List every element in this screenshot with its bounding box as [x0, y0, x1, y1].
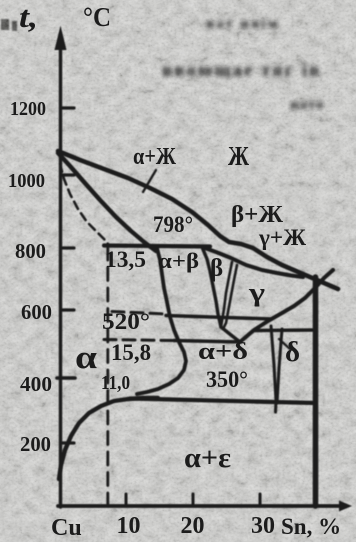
beta left boundary [202, 247, 221, 327]
svg-text:Cu: Cu [51, 515, 82, 541]
y-axis [59, 44, 62, 507]
delta top line [254, 328, 316, 332]
y tick 800 [61, 246, 74, 249]
svg-text:13,5: 13,5 [105, 247, 146, 272]
right border of diagram [313, 277, 319, 506]
svg-text:10: 10 [117, 513, 141, 539]
svg-text:β: β [210, 255, 223, 282]
partial glyphs at top-left page edge [1, 19, 9, 30]
svg-text:1000: 1000 [8, 170, 45, 192]
x tick 10 [125, 494, 128, 506]
y tick 1000 [61, 173, 74, 176]
delta needle left [271, 326, 276, 412]
alpha solvus bulb [137, 248, 186, 394]
svg-text:11,0: 11,0 [101, 372, 130, 394]
bleed-through text rows [162, 16, 324, 113]
y tick 1200 [61, 106, 74, 109]
eutectoid 586 dashed part [112, 312, 166, 315]
delta label leader [279, 339, 290, 349]
svg-text:798°: 798° [153, 212, 193, 237]
svg-text:Sn, %: Sn, % [281, 514, 341, 539]
eutectoid 520 solid part [174, 341, 241, 343]
gamma top boundary [202, 247, 303, 277]
svg-text:α+ε: α+ε [184, 443, 231, 474]
svg-text:α+Ж: α+Ж [133, 144, 176, 170]
y tick 200 [61, 441, 74, 444]
y tick 600 [61, 308, 74, 311]
svg-text:нато: нато [290, 97, 324, 113]
x-axis arrowhead [339, 501, 352, 512]
gamma bottom boundary [240, 270, 333, 342]
svg-text:20: 20 [181, 513, 205, 539]
delta needle right [277, 329, 282, 403]
svg-text:15,8: 15,8 [111, 340, 151, 365]
alpha solvus S curve [59, 398, 158, 479]
solidus curve [58, 153, 156, 251]
svg-text:200: 200 [20, 432, 51, 456]
svg-text:γ+Ж: γ+Ж [258, 225, 306, 250]
svg-text:α+β: α+β [158, 248, 199, 273]
svg-text:400: 400 [20, 372, 52, 396]
svg-text:γ: γ [248, 278, 265, 307]
alpha+zh label leader [143, 170, 156, 192]
x-axis [58, 504, 340, 508]
svg-text:350°: 350° [206, 367, 248, 392]
x tick 30 [259, 494, 262, 506]
dashed vertical 13.5 [106, 247, 109, 504]
x tick 20 [192, 494, 195, 506]
svg-text:°C: °C [83, 2, 111, 32]
svg-text:520°: 520° [102, 309, 150, 334]
peritectic line 798 [104, 246, 210, 247]
y-axis arrowhead [55, 26, 67, 51]
eutectoid 350 line [130, 399, 316, 404]
y tick 400 [57, 376, 75, 380]
svg-text:30: 30 [251, 513, 275, 539]
eutectoid 520 dashed part [104, 340, 174, 341]
svg-text:α+δ: α+δ [198, 339, 248, 365]
svg-text:600: 600 [21, 300, 52, 324]
beta right double line inner [223, 265, 237, 329]
svg-text:t,: t, [19, 0, 38, 34]
svg-text:Ж: Ж [228, 141, 249, 171]
svg-text:ввоющае тяг ів: ввоющае тяг ів [162, 60, 321, 81]
svg-text:δ: δ [285, 336, 300, 368]
svg-text:ват няім: ват няім [206, 16, 279, 32]
beta vertex to 520 junction [221, 327, 240, 342]
beta right double line outer [221, 262, 232, 327]
svg-text:α: α [75, 340, 98, 376]
svg-text:800: 800 [15, 239, 46, 263]
eutectoid 586 solid part [166, 316, 272, 320]
liquidus curve [58, 151, 338, 289]
dashed metastable curve [60, 164, 108, 244]
svg-text:1200: 1200 [10, 98, 46, 120]
